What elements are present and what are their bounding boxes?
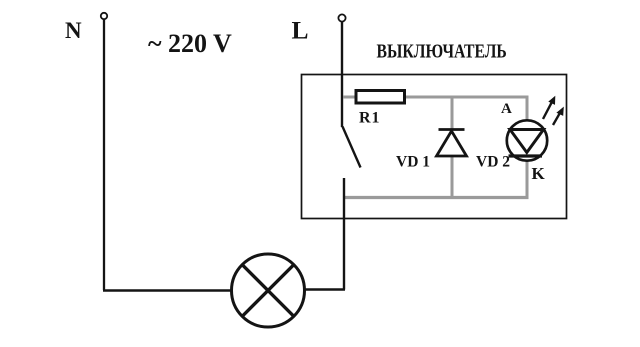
terminal L [338,14,345,21]
LED light arrow 2 [553,107,564,125]
svg-text:VD 2: VD 2 [476,154,510,171]
wire switch lower contact down to lamp [343,178,345,290]
wire N vertical [103,19,105,290]
diode VD1 [437,130,467,157]
svg-text:K: K [532,164,546,183]
wire bottom left horizontal [103,289,232,292]
svg-text:A: A [501,101,512,117]
wire bottom right horizontal [304,288,345,291]
wire L vertical [341,22,343,127]
LED VD2 triangle [510,130,544,153]
lamp EL1 circle [232,254,305,327]
wire gray bottom bus [344,196,529,199]
wire gray VD2 branch bottom [526,158,529,199]
wire gray VD1 branch top [451,96,454,131]
wire gray VD2 branch top [526,96,529,123]
wire gray top bus [343,96,527,99]
svg-text:VD 1: VD 1 [396,154,430,171]
svg-text:ВЫКЛЮЧАТЕЛЬ: ВЫКЛЮЧАТЕЛЬ [377,40,507,62]
resistor R1 [356,91,405,104]
LED VD2 circle [507,120,547,160]
LED light arrow 1 [543,96,555,119]
LED VD2 cathode bar [509,154,543,157]
svg-text:R1: R1 [359,110,380,127]
svg-text:L: L [292,16,309,45]
switch enclosure box [302,75,567,219]
lamp EL1 cross [242,265,294,317]
wire gray VD1 branch bottom [451,155,454,199]
svg-text:~ 220 V: ~ 220 V [148,29,232,58]
switch blade [343,127,361,168]
svg-text:N: N [65,18,82,43]
terminal N [101,13,107,19]
